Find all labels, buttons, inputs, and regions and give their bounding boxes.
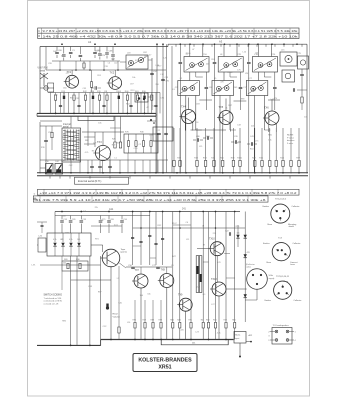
svg-text:10k: 10k (237, 233, 240, 235)
svg-text:T.V. loudspeaker: T.V. loudspeaker (273, 324, 289, 327)
svg-text:+33 +14 7.0 371 192 4.3 0.2 14: +33 +14 7.0 371 192 4.3 0.2 149 8k 112 8… (40, 191, 297, 195)
svg-text:coils): coils) (246, 267, 251, 269)
svg-text:TX5: TX5 (219, 106, 224, 109)
svg-text:R18: R18 (206, 320, 209, 322)
svg-text:Mains: Mains (235, 335, 240, 337)
svg-text:L.M.: L.M. (32, 265, 36, 267)
svg-text:R102: R102 (113, 314, 119, 316)
svg-text:(point): (point) (121, 251, 127, 254)
svg-text:denotes: denotes (287, 139, 294, 142)
svg-text:R96: R96 (133, 320, 136, 322)
svg-text:TX7: TX7 (135, 269, 140, 272)
svg-text:Emitter: Emitter (265, 299, 272, 302)
svg-text:4.7k: 4.7k (53, 239, 57, 241)
svg-text:1k: 1k (225, 108, 227, 110)
svg-text:22k: 22k (251, 126, 254, 128)
svg-text:5 m/cs: 5 m/cs (287, 143, 293, 145)
svg-text:TX8: TX8 (161, 269, 166, 272)
svg-text:TX6: TX6 (264, 107, 269, 110)
svg-text:SWITCH CODING: SWITCH CODING (44, 294, 63, 296)
svg-text:22k: 22k (100, 220, 103, 222)
svg-text:10k: 10k (63, 263, 66, 265)
svg-text:TX7,8,9,10,11: TX7,8,9,10,11 (276, 276, 290, 278)
svg-text:50Hz: 50Hz (269, 275, 274, 277)
svg-text:TX1,2,4,5,6: TX1,2,4,5,6 (275, 199, 287, 201)
svg-text:TX2: TX2 (110, 72, 115, 75)
svg-text:R: R (38, 35, 40, 38)
svg-text:supply: supply (269, 278, 275, 280)
svg-text:4.7k: 4.7k (217, 333, 221, 335)
svg-text:R4: R4 (201, 320, 203, 322)
svg-text:R12: R12 (224, 320, 227, 322)
svg-text:4.7k: 4.7k (69, 239, 73, 241)
svg-text:= closed on L.W.: = closed on L.W. (44, 303, 60, 305)
svg-text:R88: R88 (151, 320, 154, 322)
svg-text:TX13: TX13 (211, 278, 217, 281)
svg-text:R98: R98 (159, 320, 162, 322)
svg-text:9.7 8.9 +43 81 267 +2 27k 43 +: 9.7 8.9 +43 81 267 +2 27k 43 +56 0.8 41k… (43, 29, 299, 33)
svg-text:C: C (38, 30, 40, 33)
svg-text:R91: R91 (189, 320, 192, 322)
svg-text:10k: 10k (304, 116, 307, 118)
svg-text:P value: P value (287, 137, 295, 139)
svg-text:Collector: Collector (292, 205, 300, 208)
svg-text:Emitter: Emitter (263, 205, 270, 208)
svg-text:R54: R54 (213, 320, 216, 322)
svg-text:470: 470 (247, 252, 250, 254)
svg-text:A2: A2 (88, 40, 92, 44)
svg-text:aerial: aerial (40, 69, 46, 72)
svg-text:Tape: Tape (121, 249, 127, 251)
svg-text:TX4: TX4 (181, 106, 186, 109)
svg-text:A11: A11 (109, 208, 114, 211)
svg-text:V.H.F./F.M.: V.H.F./F.M. (37, 68, 48, 70)
svg-text:NOTE:: NOTE: (287, 135, 294, 137)
svg-text:shield: shield (289, 226, 294, 228)
svg-text:Internal: Internal (63, 123, 71, 126)
svg-text:10k: 10k (268, 140, 271, 142)
svg-text:10k: 10k (132, 77, 135, 79)
svg-text:Volume: Volume (113, 316, 121, 318)
svg-text:Collector: Collector (294, 299, 302, 302)
svg-text:TX10: TX10 (209, 238, 215, 241)
svg-text:TX3: TX3 (97, 141, 102, 144)
svg-text:R66: R66 (170, 320, 173, 322)
svg-text:= on/closed on M.W.: = on/closed on M.W. (44, 301, 63, 303)
svg-text:Emitter: Emitter (263, 242, 270, 245)
svg-text:4.7k: 4.7k (85, 152, 89, 154)
svg-text:R19: R19 (143, 320, 146, 322)
svg-text:R26: R26 (177, 320, 180, 322)
svg-text:22k: 22k (95, 207, 98, 209)
svg-text:14k 29 0.8 466 +4 432 30k +8 0: 14k 29 0.8 466 +4 432 30k +8 0.4 3.0 5.5… (43, 35, 299, 39)
svg-text:100: 100 (77, 239, 80, 241)
svg-text:R60: R60 (232, 320, 235, 322)
svg-text:A3: A3 (219, 39, 223, 43)
svg-text:61 43k 7.5 33k 5.9 +4 10 +60 4: 61 43k 7.5 33k 5.9 +4 10 +60 41k 29 4.7 … (36, 198, 267, 202)
svg-text:(Deflector: (Deflector (246, 263, 255, 266)
svg-text:XR51: XR51 (158, 365, 171, 371)
svg-text:input: input (235, 337, 240, 340)
svg-text:TX9: TX9 (178, 294, 183, 297)
svg-text:10k: 10k (147, 293, 150, 295)
svg-text:External aerial (R.H.): External aerial (R.H.) (78, 180, 102, 183)
svg-text:T on/closed on V.M.: T on/closed on V.M. (44, 298, 62, 300)
svg-text:Collector: Collector (293, 242, 301, 245)
svg-text:KOLSTER-BRANDES: KOLSTER-BRANDES (138, 357, 192, 363)
svg-text:10k: 10k (98, 122, 101, 124)
